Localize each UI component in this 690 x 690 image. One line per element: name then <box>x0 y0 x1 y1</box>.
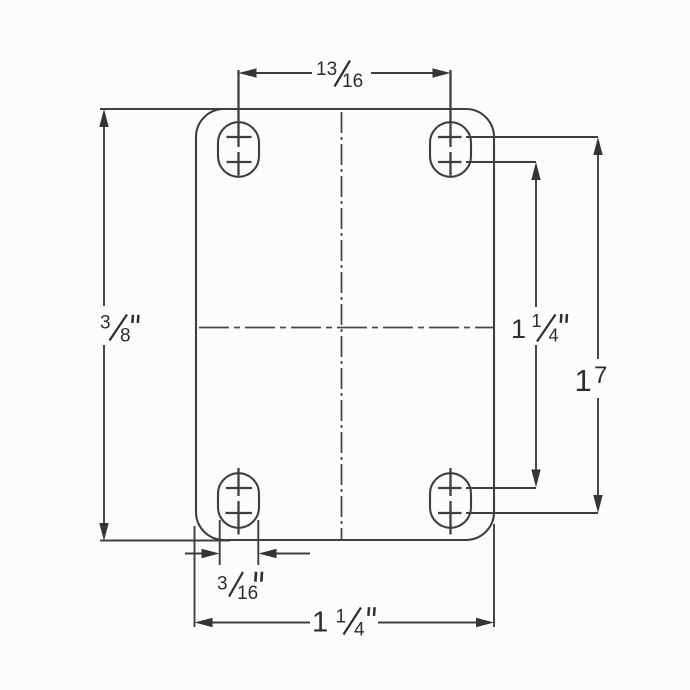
extension line below plate left edge <box>194 526 196 627</box>
crosshair vertical bottom-left hole <box>237 468 239 535</box>
hole bottom-left <box>218 473 259 528</box>
arrowhead left-bottom <box>99 523 108 541</box>
crosshair horizontals bottom-left hole <box>226 488 253 513</box>
arrowhead top-right <box>433 68 451 77</box>
crosshair vertical top-left hole / extension of top dimension <box>237 70 239 176</box>
arrowhead slot-left pointing right <box>202 549 220 558</box>
dimension line bottom 1 1/4 <box>211 622 478 624</box>
label 3/16" bottom-left <box>217 572 262 604</box>
label 1 7 right outer <box>575 362 608 398</box>
svg-text:3: 3 <box>217 574 228 595</box>
svg-text:13: 13 <box>316 59 337 80</box>
hole top-left <box>218 122 259 177</box>
label 1 1/4" bottom <box>312 607 375 641</box>
arrowhead right-inner-bottom <box>531 470 540 488</box>
crosshair vertical bottom-right hole <box>449 468 451 535</box>
arrowhead slot-right pointing left <box>259 549 277 558</box>
arrowhead right-outer-top <box>593 137 602 155</box>
crosshair top-right hole upper, extended to outer right dimension <box>438 136 598 138</box>
crosshair bottom-right hole upper, extended to inner right dimension <box>438 487 536 489</box>
svg-text:4: 4 <box>354 620 365 641</box>
svg-text:1: 1 <box>532 311 542 331</box>
dimension line slot width 3/16 <box>185 553 310 555</box>
plate outline <box>196 109 494 540</box>
svg-text:4: 4 <box>549 326 559 346</box>
svg-text:16: 16 <box>237 583 258 604</box>
arrowhead right-inner-top <box>531 162 540 180</box>
centerline vertical <box>341 112 343 539</box>
extension line top-left of plate <box>100 108 224 110</box>
label 3/8" left <box>100 313 138 347</box>
dimension line right inner 1 1/4 <box>535 179 537 470</box>
arrowhead left-top <box>99 109 108 127</box>
label 1 1/4" right inner <box>511 311 567 346</box>
arrowhead top-left <box>239 68 257 77</box>
svg-text:8: 8 <box>120 326 131 347</box>
svg-text:1: 1 <box>312 607 328 639</box>
extension line below plate right edge <box>493 524 495 627</box>
svg-text:7: 7 <box>594 362 607 389</box>
crosshair top-right hole lower, extended to inner right dimension <box>438 161 536 163</box>
extension line slot left edge <box>219 520 221 565</box>
svg-text:1: 1 <box>511 314 526 344</box>
hole bottom-right <box>430 473 471 528</box>
hole top-right <box>430 122 471 177</box>
svg-text:16: 16 <box>342 71 363 92</box>
centerline horizontal <box>199 327 493 329</box>
crosshair bottom-right hole lower, extended to outer right dimension <box>438 512 598 514</box>
svg-text:3: 3 <box>100 313 111 334</box>
arrowhead bottom-left <box>195 618 213 627</box>
svg-text:1: 1 <box>336 607 347 628</box>
arrowhead bottom-right <box>476 618 494 627</box>
dimension line left 3/8 <box>103 125 105 525</box>
extension line slot right edge <box>257 520 259 565</box>
svg-text:1: 1 <box>575 363 592 398</box>
crosshair horizontals top-left hole <box>227 137 252 162</box>
label 13/16 top <box>316 59 363 92</box>
extension line bottom-left of plate <box>100 540 230 542</box>
dimension line top 13/16 <box>254 72 434 74</box>
crosshair vertical top-right hole / extension of top dimension <box>449 70 451 176</box>
arrowhead right-outer-bottom <box>593 495 602 513</box>
dimension line right outer 1 7 <box>597 154 599 496</box>
